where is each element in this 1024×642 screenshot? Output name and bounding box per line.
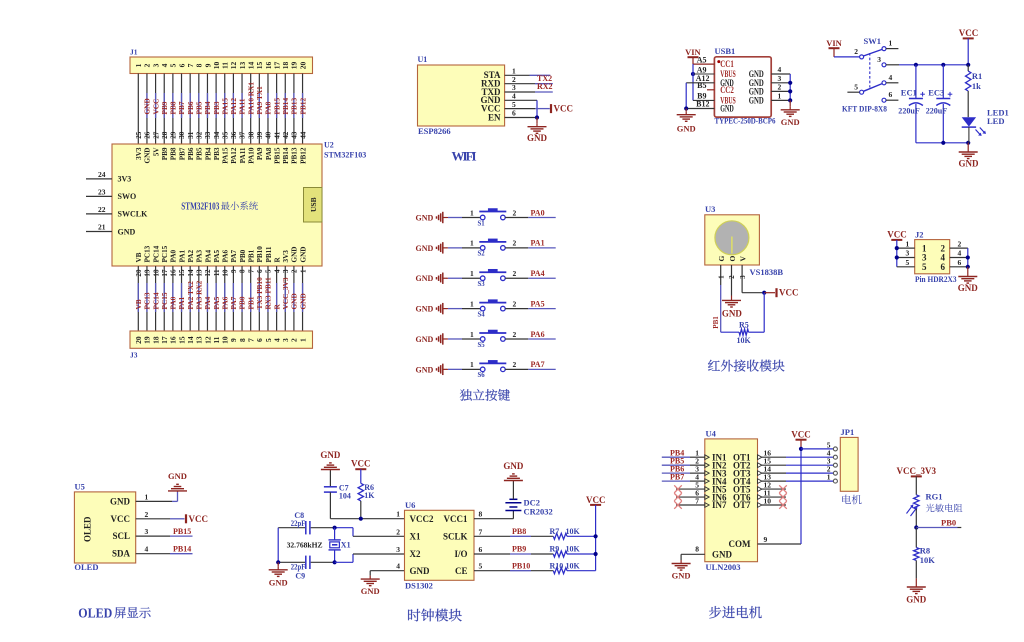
wire J1 pin 8 to U2 pin 32: [198, 74, 200, 145]
wire J1 pin 10 to U2 pin 34: [215, 74, 217, 145]
J2 designator: [915, 230, 924, 240]
svg-text:20: 20: [135, 269, 143, 277]
U6 right pin name SCLK: [443, 532, 468, 542]
J3 pin number 14: [186, 336, 195, 344]
svg-text:5: 5: [922, 262, 927, 272]
connector J3 header: [130, 331, 313, 348]
resistor R6: [358, 483, 363, 518]
svg-text:OLED: OLED: [83, 516, 93, 542]
junction VCC R7: [594, 534, 598, 538]
wire U5 pin 4: [136, 553, 193, 555]
USB1 pin label A9: [697, 65, 707, 74]
svg-text:1: 1: [396, 510, 400, 519]
U2 bottom pin number 13: [196, 269, 204, 277]
svg-text:PB0: PB0: [239, 249, 247, 262]
net label PA9 TX1 on J1 wire: [255, 86, 264, 115]
U2 left pin number 24: [98, 170, 106, 179]
svg-text:VB: VB: [135, 252, 143, 262]
svg-text:39: 39: [256, 131, 264, 139]
J2 inner label 6: [941, 262, 946, 272]
U4 pin number 5: [695, 480, 699, 489]
svg-text:40: 40: [265, 131, 273, 139]
svg-text:LED: LED: [987, 116, 1004, 126]
wire S5 pin 2 to PA6: [505, 338, 556, 340]
U1 designator: [418, 55, 428, 64]
U2 bottom pin number 8: [239, 269, 247, 273]
svg-text:GND: GND: [410, 566, 431, 576]
junction bottom LED: [966, 141, 970, 145]
wire J1 pin 16 to U2 pin 40: [267, 74, 269, 145]
svg-text:16: 16: [169, 336, 178, 344]
svg-text:104: 104: [339, 492, 351, 501]
svg-text:PB3: PB3: [213, 147, 221, 160]
net label PB0 on J3 wire: [238, 296, 247, 309]
svg-text:PB10: PB10: [256, 246, 264, 263]
svg-text:PA11: PA11: [238, 98, 247, 114]
svg-text:2: 2: [290, 338, 299, 342]
U2 left pin name 3V3: [118, 175, 132, 184]
net label PA10 RX1 on J1 wire: [246, 82, 255, 115]
svg-text:8: 8: [479, 510, 483, 519]
svg-text:12: 12: [204, 269, 212, 277]
svg-text:13: 13: [238, 62, 247, 70]
wire J2 left pin 1: [897, 247, 915, 249]
S4 designator: [478, 311, 486, 318]
svg-text:8: 8: [239, 269, 247, 273]
svg-text:10K: 10K: [566, 527, 581, 536]
wire U5 pin 1 to GND: [136, 492, 178, 502]
svg-text:GND: GND: [749, 95, 764, 105]
svg-text:PB13: PB13: [291, 147, 299, 164]
wire COM to VCC: [758, 449, 802, 544]
U2 bottom pin name PC15: [161, 245, 169, 262]
svg-text:41: 41: [273, 131, 281, 139]
ground at S3: [416, 273, 447, 284]
U2 designator: [324, 141, 366, 160]
junction VCC JP1: [799, 447, 803, 451]
svg-text:14: 14: [187, 269, 195, 277]
svg-text:PB6: PB6: [187, 147, 195, 160]
ground at LED rail: [959, 143, 980, 169]
U2 pin number 32: [196, 131, 204, 139]
wire C8 to U6 pin 2: [335, 528, 405, 537]
svg-text:U1: U1: [418, 55, 428, 64]
U6 left pin number 4: [396, 562, 400, 571]
power VIN at SW1: [826, 38, 842, 57]
wire U1 pin 5 VCC: [505, 108, 550, 110]
photoresistor RG1: [907, 495, 920, 516]
svg-text:V: V: [738, 256, 747, 262]
svg-text:5: 5: [264, 338, 273, 342]
wire U2 pin 2 to J3 pin 2: [293, 266, 295, 331]
svg-text:PB15: PB15: [273, 147, 281, 164]
USB1 pin label A12: [696, 74, 710, 83]
svg-text:PB14: PB14: [282, 147, 290, 164]
ground at U6 pin 4: [361, 576, 380, 596]
wire J1 pin 4 to U2 pin 28: [163, 74, 165, 145]
power VCC right of U6: [586, 495, 606, 571]
net label PA4: [531, 269, 545, 278]
svg-text:1: 1: [827, 473, 831, 482]
USB1 label TYPEC-250D-BCP6: [715, 115, 776, 125]
svg-text:PA15: PA15: [222, 147, 230, 164]
U3 pin number 2: [729, 275, 736, 279]
svg-text:DS1302: DS1302: [405, 580, 433, 590]
svg-text:10K: 10K: [920, 555, 936, 565]
svg-text:GND: GND: [959, 159, 980, 169]
svg-text:8: 8: [238, 338, 247, 342]
U5 pin number 1: [145, 492, 149, 501]
svg-text:3: 3: [145, 527, 149, 536]
wire S6 pin 2 to PA7: [505, 368, 556, 370]
capacitor C7: [324, 471, 337, 519]
U4 pin name OT1: [733, 452, 762, 462]
svg-text:GND: GND: [291, 247, 299, 263]
S2 designator: [478, 251, 486, 258]
wire U1 pin 6 EN: [505, 117, 537, 119]
U2 top pin name 5V: [152, 147, 160, 157]
JP1 pin circle 5: [833, 447, 837, 451]
wire U2 pin 18 to J3 pin 18: [155, 266, 157, 331]
U1 pin name VCC: [481, 104, 501, 114]
U1 label ESP8266: [418, 126, 451, 136]
svg-text:U3: U3: [705, 204, 715, 214]
svg-text:PB15: PB15: [272, 98, 281, 115]
svg-text:I/O: I/O: [454, 549, 467, 559]
wire B5 CC2 stub: [707, 89, 714, 91]
S1 pin number 1: [470, 208, 474, 217]
net label PB5: [670, 456, 684, 465]
wire S4 pin 2 to PA5: [505, 308, 556, 310]
svg-text:2: 2: [396, 527, 400, 536]
svg-text:PA15: PA15: [220, 98, 229, 115]
svg-text:EC3: EC3: [928, 87, 944, 97]
svg-text:18: 18: [152, 269, 160, 277]
svg-text:PB14: PB14: [173, 544, 191, 553]
USB1 left label GND: [720, 78, 734, 88]
svg-text:6: 6: [177, 63, 186, 67]
SW1 pin number 4: [889, 73, 893, 82]
U2 top pin name PA10: [247, 147, 255, 164]
J3 pin number 6: [255, 338, 264, 342]
net label PB12 on J1 wire: [298, 98, 307, 115]
no-connect X on OT7: [779, 501, 787, 509]
svg-text:17: 17: [160, 336, 169, 344]
U4 pin name IN5: [705, 484, 727, 494]
J2 inner label 1: [922, 243, 927, 253]
USB1 right label GND: [749, 78, 764, 88]
wire GND to S1 pin 1: [446, 217, 480, 219]
U6 designator: [405, 500, 415, 510]
svg-text:GND: GND: [110, 496, 131, 506]
svg-text:16: 16: [170, 269, 178, 277]
U2 bottom pin name R: [273, 257, 281, 263]
svg-text:CE: CE: [455, 566, 468, 576]
net label PA0 on J3 wire: [169, 296, 178, 309]
wire VCC to JP1 pin 5: [801, 448, 833, 450]
wire OT1 to JP1: [762, 456, 834, 458]
U5 pin name SCL: [112, 531, 130, 541]
U2 bottom pin number 20: [135, 269, 143, 277]
U2 bottom pin name GND: [291, 247, 299, 263]
U6 left pin number 3: [396, 545, 400, 554]
SW1 pin number 3: [877, 55, 881, 64]
svg-text:PB15: PB15: [173, 527, 191, 536]
capacitor EC3: [936, 65, 952, 143]
svg-text:10: 10: [221, 269, 229, 277]
U4 pin number 13: [764, 473, 772, 482]
wire U3 pin 1: [720, 265, 722, 332]
wire U2 pin 17 to J3 pin 17: [163, 266, 165, 331]
USB1 right pin number 2: [778, 83, 782, 92]
power VCC_3V3: [897, 466, 937, 495]
svg-text:VCC: VCC: [351, 459, 371, 469]
ground at S6: [416, 364, 447, 375]
resistor R7: [553, 533, 567, 539]
driver U4 body: [705, 439, 758, 562]
svg-text:PA1: PA1: [177, 296, 186, 309]
U2 pin number 29: [170, 131, 178, 139]
wire IN6 nc stub: [676, 496, 705, 498]
U2 bottom pin name VB: [135, 252, 143, 262]
svg-text:6: 6: [256, 269, 264, 273]
svg-text:27: 27: [152, 131, 160, 139]
pushbutton S5: [479, 330, 506, 341]
wire U4 GND: [681, 554, 705, 560]
svg-text:2: 2: [513, 299, 517, 308]
J1 pin number 18: [281, 62, 290, 70]
net label PA6 on J3 wire: [220, 296, 229, 309]
svg-text:14: 14: [246, 61, 255, 69]
U2 pin number 40: [265, 131, 273, 139]
svg-text:PB14: PB14: [281, 98, 290, 115]
U2 bottom pin number 4: [273, 269, 281, 273]
U4 designator: [706, 428, 717, 438]
U4 pin number 8: [695, 545, 699, 554]
svg-text:7: 7: [186, 63, 195, 67]
svg-text:VCC: VCC: [554, 104, 574, 114]
wire J2 right pin 4: [950, 257, 968, 259]
DC2 labels: [524, 498, 553, 517]
svg-text:S4: S4: [478, 311, 486, 318]
svg-text:VIN: VIN: [826, 38, 842, 48]
J2 inner label 4: [941, 253, 946, 263]
svg-text:PC14: PC14: [152, 245, 160, 262]
svg-text:11: 11: [213, 269, 221, 276]
net label GND on J3 wire: [298, 293, 307, 309]
S6 designator: [478, 372, 486, 379]
U5 pin name SDA: [112, 549, 131, 559]
svg-text:GND: GND: [712, 550, 733, 560]
net label PB13 on J1 wire: [290, 98, 299, 115]
svg-text:8: 8: [695, 545, 699, 554]
svg-text:ULN2003: ULN2003: [706, 562, 741, 572]
svg-text:COM: COM: [729, 539, 752, 549]
J3 pin number 4: [272, 338, 281, 342]
U4 pin name OT7: [733, 500, 762, 510]
U1 pin number 5: [512, 100, 516, 109]
JP1 pin circle 2: [833, 471, 837, 475]
JP1 pin number 4: [827, 449, 831, 458]
svg-text:1: 1: [470, 360, 474, 369]
U4 pin name IN6: [705, 492, 727, 502]
wire VIN to A5 CC1: [693, 63, 714, 65]
net label PA2 TX2 on J3 wire: [186, 281, 195, 310]
U2 bottom pin number 3: [282, 269, 290, 273]
wire U2 pin 3 to J3 pin 3: [284, 266, 286, 331]
svg-text:EC1: EC1: [901, 87, 917, 97]
wire U2 pin 12 to J3 pin 12: [206, 266, 208, 331]
svg-text:2: 2: [958, 239, 962, 248]
svg-text:PB10: PB10: [512, 561, 530, 570]
U2 bottom pin name 3V3: [282, 250, 290, 263]
wire J1 pin 17 to U2 pin 41: [276, 74, 278, 145]
svg-text:5: 5: [479, 562, 483, 571]
svg-text:1K: 1K: [364, 491, 375, 500]
svg-text:7: 7: [695, 496, 699, 505]
net label PA4 on J3 wire: [203, 296, 212, 309]
svg-text:7: 7: [479, 527, 483, 536]
svg-text:S2: S2: [478, 251, 486, 258]
U6 right pin number 6: [479, 545, 483, 554]
svg-text:2: 2: [513, 269, 517, 278]
led LED1: [962, 117, 976, 143]
net label PB3 on J1 wire: [212, 101, 221, 114]
svg-text:PB1: PB1: [246, 296, 255, 309]
J2 label Pin HDR2X3: [915, 274, 957, 284]
U4 pin number 14: [764, 465, 772, 474]
svg-text:10K: 10K: [566, 545, 581, 554]
U6 label DS1302: [405, 580, 433, 590]
capacitor C8: [278, 521, 334, 534]
U5 label OLED rotated: [83, 516, 93, 542]
power VIN at USB1: [685, 47, 701, 64]
wire OT7 nc stub: [762, 504, 786, 506]
S3 pin number 1: [470, 269, 474, 278]
svg-text:1k: 1k: [972, 81, 981, 91]
svg-text:USB1: USB1: [715, 46, 736, 56]
svg-text:30: 30: [178, 131, 186, 139]
svg-text:6: 6: [479, 545, 483, 554]
U2 pin number 44: [299, 131, 307, 139]
U2 bottom pin name PA3: [196, 249, 204, 262]
R8 labels: [920, 546, 936, 565]
wire S1 pin 2 to PA0: [505, 217, 556, 219]
svg-text:1: 1: [889, 39, 893, 48]
U2 top pin name PB8: [170, 147, 178, 160]
net label GND on J1 wire: [143, 98, 152, 114]
svg-text:2: 2: [513, 330, 517, 339]
svg-text:9: 9: [229, 338, 238, 342]
svg-text:CC1: CC1: [720, 59, 734, 69]
J1 pin number 6: [177, 63, 186, 67]
X1 label: [341, 541, 351, 550]
svg-text:OT7: OT7: [733, 500, 751, 510]
U2 top pin name PA15: [222, 147, 230, 164]
svg-text:24: 24: [98, 170, 106, 179]
connector J1 header: [130, 57, 313, 74]
svg-text:18: 18: [281, 62, 290, 70]
battery DC2: [505, 482, 521, 511]
svg-text:GND: GND: [416, 244, 434, 253]
SW1 label KFT DIP-8X8: [842, 103, 887, 113]
wire S3 pin 2 to PA4: [505, 277, 556, 279]
U2 bottom pin number 18: [152, 269, 160, 277]
wire J1 pin 5 to U2 pin 29: [172, 74, 174, 145]
U2 top pin name PB6: [187, 147, 195, 160]
wire U1 pin 1 STA: [505, 74, 551, 76]
svg-text:4: 4: [160, 63, 169, 67]
svg-text:2: 2: [513, 208, 517, 217]
svg-text:44: 44: [299, 131, 307, 139]
U2 bottom pin name PA4: [204, 249, 212, 262]
net label PA5 on J3 wire: [212, 296, 221, 309]
U2 top pin name PA8: [265, 147, 273, 160]
svg-text:16: 16: [264, 62, 273, 70]
U2 left pin name GND: [118, 227, 136, 236]
svg-text:PA2: PA2: [187, 249, 195, 262]
svg-text:RX2: RX2: [537, 82, 553, 91]
J3 pin number 13: [195, 336, 204, 344]
wire USB1 right gnd bus: [789, 74, 791, 100]
svg-text:PA9: PA9: [256, 147, 264, 160]
SW1 pin number 5: [854, 82, 858, 91]
J1 pin number 10: [212, 62, 221, 70]
U2 bottom pin number 2: [291, 269, 299, 273]
no-connect X on OT6: [779, 493, 787, 501]
JP1 pin number 2: [827, 465, 831, 474]
junction J2 left 1: [895, 246, 899, 250]
mcu U2 body: [112, 144, 322, 266]
J2 inner label 3: [922, 253, 927, 263]
svg-text:EN: EN: [488, 112, 501, 122]
svg-text:9: 9: [764, 535, 768, 544]
SW1 pin number 2: [854, 47, 858, 56]
net label PA1: [531, 239, 545, 248]
J2 inner label 5: [922, 262, 927, 272]
J1 pin number 1: [134, 63, 143, 67]
switch SW1 pole 5-4: [847, 81, 886, 94]
switch SW1 pin 6: [882, 98, 898, 102]
U2 bottom pin number 16: [170, 269, 178, 277]
U4 pin name GND: [712, 550, 733, 560]
USB1 pin label B9: [697, 92, 706, 101]
U6 right pin name VCC1: [444, 514, 468, 524]
svg-text:37: 37: [239, 131, 247, 139]
svg-text:PC15: PC15: [161, 245, 169, 262]
svg-text:JP1: JP1: [841, 427, 855, 437]
svg-text:PA7: PA7: [230, 249, 238, 262]
junction VIN/A9: [691, 72, 695, 76]
svg-text:OLED: OLED: [78, 605, 112, 620]
svg-text:ESP8266: ESP8266: [418, 126, 451, 136]
svg-text:GND: GND: [677, 124, 696, 134]
wire U2 left pin 23: [86, 195, 112, 197]
junction VCC R9: [594, 552, 598, 556]
svg-text:5: 5: [512, 100, 516, 109]
svg-text:11: 11: [212, 336, 221, 343]
connector J2 body: [915, 240, 950, 274]
svg-text:GND: GND: [503, 461, 524, 471]
power VCC at rail: [959, 28, 979, 65]
svg-text:PB3: PB3: [212, 101, 221, 114]
wire J1 pin 9 to U2 pin 33: [206, 74, 208, 145]
wire GND to S6 pin 1: [446, 368, 480, 370]
svg-text:32.768kHZ: 32.768kHZ: [287, 540, 323, 549]
net label PB4 on J1 wire: [203, 101, 212, 114]
junction X1 top: [333, 526, 337, 530]
U2 bottom pin name PA5: [213, 249, 221, 262]
